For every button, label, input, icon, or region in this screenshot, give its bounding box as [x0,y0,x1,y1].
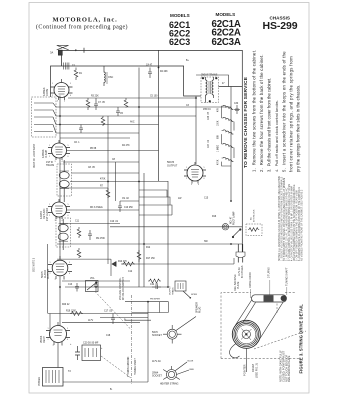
svg-text:1: 1 [50,262,51,264]
capacitor C4 [148,68,152,79]
figure 3 dashed outline [221,293,299,359]
dashed cord diagonal lower [101,356,131,378]
svg-text:455 KC: 455 KC [203,108,211,111]
loop antenna dashed box [32,97,57,137]
svg-text:2: 2 [52,95,53,97]
interlock heater element [248,228,259,232]
svg-text:HS-299: HS-299 [263,20,298,32]
svg-text:B-: B- [110,389,113,391]
svg-text:3: 3 [55,279,56,281]
svg-text:INTERLOCK: INTERLOCK [254,209,256,222]
ladder chain links [222,106,240,166]
svg-text:100K: 100K [218,120,220,126]
svg-text:3: 3 [53,345,54,347]
svg-text:2 TURNS AROUND: 2 TURNS AROUND [127,356,130,377]
svg-text:CONV: CONV [46,88,49,96]
svg-text:TO REMOVE CHASSIS FOR SERVICE: TO REMOVE CHASSIS FOR SERVICE [243,76,249,168]
svg-text:4: 4 [198,184,199,186]
svg-text:5: 5 [69,262,70,264]
resistor R3 vertical [86,98,90,110]
IF transformer T3 dashed can [56,218,71,247]
tube V4 50C5 audio output [48,256,72,279]
IF T1 coils [206,77,214,103]
svg-text:OUTPUT: OUTPUT [47,268,50,279]
svg-text:47K: 47K [218,107,220,112]
svg-text:C20 50-30 MF: C20 50-30 MF [83,342,99,345]
component value labels [62,60,239,391]
svg-text:62C3: 62C3 [169,37,190,47]
capacitor C14 [94,281,98,291]
coupling capacitor C7 [94,98,98,110]
wire AC line y244 [57,243,242,245]
wire plate bus [68,97,196,99]
svg-text:TUNING SHAFT: TUNING SHAFT [286,267,289,286]
svg-text:FIGURE 3. STRING DRIVE DETAIL: FIGURE 3. STRING DRIVE DETAIL [298,304,303,374]
svg-text:AC: AC [250,217,253,220]
service step 5 line 3 [296,85,301,172]
svg-text:TRANS: TRANS [172,287,175,295]
svg-text:C13: C13 [68,284,73,286]
label T4 [38,370,71,386]
svg-text:117V AC: 117V AC [238,267,241,276]
resistor ladder R13 [222,130,234,134]
tube V2 12BA6 IF amplifier [48,140,70,160]
figure 3 note text [279,350,292,382]
wire x115 segment [114,162,116,201]
wire bus vertical x144 [143,173,145,287]
wire above IF can [196,75,229,87]
capacitor C5 on AVC bus [116,107,120,116]
svg-text:OUTPUT: OUTPUT [167,165,178,168]
svg-text:MODELS: MODELS [216,12,236,17]
svg-text:5: 5 [70,83,71,85]
svg-text:5: 5 [204,167,205,169]
service step 3 [267,78,272,172]
resistor ladder R11 [222,105,234,109]
resistor R9a vertical [77,248,81,258]
dial drum pulley [230,320,261,358]
svg-text:2ND IF TRANS: 2ND IF TRANS [201,74,218,77]
svg-text:3: 3 [57,101,58,103]
label V2 [41,149,48,158]
wire y317 [100,317,148,319]
svg-text:DRIVE CORD: DRIVE CORD [249,272,252,288]
capacitor C9 [118,201,122,212]
socket S2 top view [163,362,189,380]
oscillator coil L2 [104,66,107,86]
on-off switch [232,229,241,238]
svg-text:AS VIEWED FROM THE FRONT OF TH: AS VIEWED FROM THE FRONT OF THE CABINET,… [301,189,304,261]
svg-text:C26 .05: C26 .05 [208,111,210,120]
figure 3 caption [298,304,303,374]
label interlock [250,209,256,222]
diode detector D1 [112,262,116,267]
wire plate V2 [67,150,159,152]
resistor R19 [70,312,83,316]
label speaker plug [196,302,202,313]
tube V1 12BE6 converter [51,79,73,100]
label volume control [119,277,125,300]
tuning shaft slider [252,295,287,302]
label dial backing plate [234,274,240,291]
svg-text:60 CYCLES: 60 CYCLES [242,265,244,278]
tube pin numbers [48,83,205,347]
svg-text:6: 6 [69,273,70,275]
capacitor C17 [111,314,115,325]
wire speaker leads [63,302,168,382]
svg-text:SOCKET: SOCKET [152,334,162,337]
svg-text:DIAL BACKING PLATE: DIAL BACKING PLATE [287,355,291,382]
svg-text:R6 3.3 MEG: R6 3.3 MEG [90,207,103,209]
wire row y281 [62,280,130,282]
resistor R2 [74,68,78,81]
svg-text:front cover retainer springs,: front cover retainer springs, and pry th… [289,56,294,172]
wire cathode bus [56,124,159,126]
label S2 [152,361,195,378]
wire row y181 [70,181,168,183]
chassis block [263,16,298,33]
label T1 [201,74,218,112]
wire y162 [63,161,139,163]
IF T3 coils [58,219,68,250]
svg-text:BLUE: BLUE [188,361,194,363]
dashed cord diagonal upper [95,292,131,330]
svg-text:6: 6 [68,156,69,158]
pointer travel dashed diagonal [254,304,306,350]
svg-text:5. Insert a screwdriver into: 5. Insert a screwdriver into the loops o… [282,51,287,172]
dash-dot drive cord line [131,295,133,385]
wire V5 grid lead [49,314,51,334]
svg-text:117V AC: 117V AC [152,360,161,363]
resistor R17 vertical [137,250,141,262]
resistor ladder R15 [222,157,234,161]
filter cap symbol [75,346,80,360]
svg-text:4: 4 [62,220,63,222]
svg-text:AVC: AVC [130,121,135,124]
wire V4 plate y259 [57,259,111,276]
wire B+ vertical x231 [230,87,232,202]
AC plug [236,244,245,263]
svg-text:POINTER: POINTER [243,364,247,376]
svg-text:1 MEG: 1 MEG [218,145,220,152]
resistor R4a vertical [101,116,105,126]
label DRUM [251,363,258,378]
IF transformer T2 dashed can [57,164,72,196]
svg-text:B-: B- [124,320,127,322]
svg-text:3: 3 [55,220,56,222]
wire row y188 [60,187,108,189]
svg-text:C4 47: C4 47 [146,65,153,67]
svg-text:3 TURNS: 3 TURNS [268,267,271,278]
wire IF output [219,86,243,88]
label V1 [42,87,49,96]
svg-text:C14 .02: C14 .02 [150,284,159,286]
svg-text:68K: 68K [218,134,220,139]
svg-text:4. Pull off radio and clock c: 4. Pull off radio and clock control knob… [274,100,279,172]
svg-text:SPEAKER: SPEAKER [196,302,199,313]
svg-text:1: 1 [186,167,187,169]
resistor R6a vertical [77,227,81,238]
wire B+ top rail [62,48,242,252]
loop antenna windings [34,103,56,133]
svg-text:C15: C15 [204,198,209,200]
svg-text:C17 .05: C17 .05 [104,311,113,313]
svg-text:4: 4 [64,279,65,281]
svg-text:NO. 47: NO. 47 [231,216,233,224]
svg-text:2: 2 [49,215,50,217]
wire screen feed vertical [158,50,160,181]
wire heater bus [56,132,139,134]
label POINTER [243,364,247,376]
svg-text:4: 4 [62,161,63,163]
wire oscillator top [51,66,202,97]
IF T2 coils [59,160,69,202]
wire detector vertical x108 [107,116,109,264]
capacitor C13a [75,283,79,292]
svg-text:6: 6 [204,178,205,180]
label TUNING SHAFT [286,267,289,295]
svg-text:1: 1 [49,145,50,147]
svg-text:1. Remove the two screws from: 1. Remove the two screws from the bottom… [252,50,257,172]
svg-text:RECT: RECT [43,336,46,343]
label cord turns [127,356,137,377]
IF can terminal dots [202,77,218,102]
label T2 [46,161,55,167]
wire left AC lead x47.5 [47,244,49,314]
svg-text:R5 68: R5 68 [90,148,97,150]
wire bus vertical x139 [138,68,140,288]
svg-text:MODELS: MODELS [170,13,190,18]
resistor ladder R14 [222,143,234,147]
svg-text:5: 5 [68,204,69,206]
svg-text:SOCKET: SOCKET [152,375,162,378]
electrolytic capacitor C20 [82,345,101,361]
wire AVC bus [56,106,231,108]
resistor ladder R12 [222,117,234,121]
svg-text:2: 2 [48,339,49,341]
svg-text:R20 22: R20 22 [62,304,70,306]
svg-text:4: 4 [64,101,65,103]
label DRIVE CORD [249,272,252,298]
IF transformer T1 dashed can [201,77,219,103]
resistor R18 horizontal [148,279,161,283]
label S1 [152,331,162,337]
svg-text:470K: 470K [100,179,106,181]
wire rect output y322 [62,322,140,324]
svg-text:50C5: 50C5 [167,160,175,164]
svg-text:1: 1 [49,204,50,206]
svg-text:6: 6 [70,95,71,97]
svg-text:C9 .02: C9 .02 [122,198,129,200]
wire bus vertical x168 [167,181,169,287]
resistor R5a vertical [124,98,128,107]
label V4 [40,268,50,279]
svg-text:R4 47K: R4 47K [122,145,130,147]
wire audio grid y287 [65,286,168,288]
svg-text:pry the springs from their slo: pry the springs from their slots in the … [296,85,301,172]
svg-text:C18: C18 [106,335,111,337]
svg-text:62C3A: 62C3A [212,37,241,48]
resistor R7 vertical [106,188,110,198]
left margin note top [33,143,36,168]
svg-text:2. Remove the four screws fro: 2. Remove the four screws from the back … [259,54,264,172]
svg-text:3A: 3A [50,51,53,55]
tube V6 50C5 output [184,162,206,184]
service step 1 [252,50,257,172]
coupling cap C14b [152,285,161,289]
svg-text:C7 .05: C7 .05 [98,102,105,104]
wire detector output [67,209,139,211]
label V6 [167,160,178,168]
svg-text:(Continued from preceding page: (Continued from preceding page) [36,24,128,31]
interlock dashed box [246,224,262,236]
socket S1 top view [163,317,196,344]
svg-text:PILOT LAMP: PILOT LAMP [233,211,236,225]
svg-text:PLATE: PLATE [237,281,240,289]
volume control R8 [86,281,99,292]
label 3 TURNS [268,267,271,294]
svg-text:C8 .05: C8 .05 [88,167,95,169]
svg-text:C10 250: C10 250 [124,207,133,209]
svg-text:R12: R12 [146,247,151,249]
service step 2 [259,54,264,172]
svg-text:5: 5 [67,328,68,330]
svg-text:TUNING SHAFT: TUNING SHAFT [134,357,137,375]
label V5 [39,335,46,343]
svg-text:HEATER STRING: HEATER STRING [160,383,179,386]
svg-text:TRANS: TRANS [46,164,55,167]
wire cathode chain x60 [58,96,60,368]
svg-text:R16: R16 [212,216,217,218]
small capacitor C30 right [235,105,239,114]
svg-text:3: 3 [191,184,192,186]
svg-text:1: 1 [48,328,49,330]
pointer line [245,349,247,373]
svg-text:IF AMP: IF AMP [45,149,48,158]
capacitor C11a [88,230,92,240]
models block 2 [212,12,241,48]
svg-text:R19 1200: R19 1200 [66,311,77,313]
svg-text:(SEE FIG. 2): (SEE FIG. 2) [254,363,258,378]
label AC plug [238,265,244,278]
svg-text:C27 .02: C27 .02 [208,139,210,148]
svg-text:R17 150: R17 150 [146,258,155,260]
svg-text:R10 47K: R10 47K [118,261,127,263]
wire staircase to V6 [139,190,172,215]
wire row y264 [121,258,234,264]
service step 4 [274,100,279,172]
svg-text:R9 470K: R9 470K [96,238,105,240]
output transformer T4 [43,368,64,387]
svg-text:W/ ON-OFF SWITCH: W/ ON-OFF SWITCH [122,277,125,300]
service step 5 line 1 [282,51,287,172]
svg-text:1ST AUDIO: 1ST AUDIO [46,208,49,221]
svg-text:MOTOROLA, Inc.: MOTOROLA, Inc. [53,17,118,24]
svg-text:SEE NOTE 3: SEE NOTE 3 [33,257,36,272]
label pilot lamp [231,211,236,225]
service step 5 line 2 [289,56,294,172]
tube V5 35W4 rectifier [46,322,70,345]
wire row y173 [72,172,140,174]
tube V3 12AT6 det-AVC [48,199,70,219]
svg-text:1: 1 [52,83,53,85]
svg-text:6: 6 [67,339,68,341]
wire tube V6 plate lead [195,96,197,164]
svg-text:117V: 117V [88,320,94,322]
wire pilot lamp feed [110,226,242,228]
svg-text:POWER: POWER [38,377,41,386]
models block 1 [169,13,190,47]
svg-text:5: 5 [68,145,69,147]
svg-text:OSC: OSC [108,76,113,79]
svg-text:6: 6 [68,215,69,217]
capacitor C6a [79,125,83,134]
heading TO REMOVE CHASSIS FOR SERVICE [243,76,249,168]
ladder labels [208,107,220,165]
svg-text:R4 20K: R4 20K [160,71,168,73]
pilot lamp [222,224,228,230]
svg-text:2: 2 [49,156,50,158]
svg-text:C6 .1: C6 .1 [74,142,80,144]
svg-text:470K: 470K [218,159,220,165]
wire row y138 [60,137,130,139]
svg-text:R3 22K: R3 22K [91,96,99,98]
wire grid bus [56,115,196,117]
svg-text:C5 100: C5 100 [150,96,158,98]
wire B- bus y313 [48,313,148,315]
label V3 [39,208,49,221]
svg-text:SPKR: SPKR [191,294,197,296]
wire row y223 [60,223,120,225]
svg-text:PM SPKR: PM SPKR [150,299,160,301]
svg-text:RED: RED [190,369,195,371]
svg-text:PLUG: PLUG [200,307,202,313]
label antenna [50,51,53,55]
svg-text:C10 .01: C10 .01 [110,221,119,223]
left margin note bottom [33,257,36,272]
svg-text:2: 2 [186,178,187,180]
svg-text:OUTPUT: OUTPUT [170,285,172,295]
svg-text:PART OF LOOP ASSY: PART OF LOOP ASSY [33,143,36,168]
resistor R10 [122,262,135,266]
drive cord strings [236,300,284,346]
svg-text:3: 3 [55,161,56,163]
svg-text:4: 4 [62,345,63,347]
svg-text:3. Pull the chassis and front: 3. Pull the chassis and front cover from… [267,78,272,172]
svg-text:C30: C30 [234,103,239,105]
title MOTOROLA, Inc. [36,17,128,31]
svg-text:C12: C12 [128,271,133,273]
output transformer small box [175,281,191,299]
label L2 [108,76,113,79]
svg-text:VOL: VOL [90,278,95,280]
loop antenna bowtie symbol [57,45,69,69]
label C20 [83,342,99,345]
wire row y201 [120,200,139,202]
